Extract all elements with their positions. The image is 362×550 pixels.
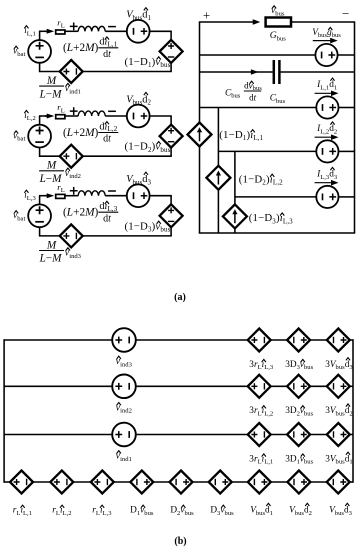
- current arrow i_L1: [45, 30, 52, 32]
- wire inductor to source stage 3: [105, 195, 126, 197]
- resistor r_L stage 1: [56, 30, 65, 34]
- wire top-left stage 3: [39, 196, 41, 205]
- wire b rail 1 segment 5: [350, 339, 353, 341]
- dependent source v_ind3 stage 3: [60, 224, 83, 247]
- wire b rail 1 segment 2: [135, 339, 247, 341]
- arrow I_L1 d_1: [315, 92, 337, 94]
- wire b rail 2 segment 2: [135, 385, 247, 387]
- polarity - inductor stage 2: [108, 110, 116, 112]
- polarity + inductor stage 3: [70, 187, 78, 195]
- wire bus right edge: [354, 22, 356, 233]
- svg-text:(L+2M): (L+2M): [63, 207, 99, 219]
- dependent source (1-D2)i_L2: [206, 166, 230, 190]
- resistor r_L stage 3: [56, 194, 65, 198]
- dependent source 3r_L i_L1: [248, 423, 271, 446]
- svg-text:M: M: [46, 160, 57, 172]
- wire right vertical bottom stage 3: [170, 227, 172, 236]
- wire branch g_bus left: [200, 54, 316, 56]
- wire b rail 1 segment 3: [271, 339, 287, 341]
- wire capacitor branch left: [200, 71, 273, 73]
- dependent source (1-D1)v_bus stage 1: [160, 40, 183, 63]
- dependent source 3D2v_bus: [287, 375, 310, 398]
- source v_ind1: [112, 423, 136, 447]
- wire source to corner stage 2: [149, 115, 171, 117]
- wire b bottom rail to V_bus d_1: [231, 481, 248, 483]
- wire bottom-left stage 1: [39, 71, 60, 73]
- dependent source V_bus d_3: [327, 471, 350, 494]
- wire inner vertical A upper: [217, 108, 219, 166]
- wire bus left edge lower: [199, 147, 201, 234]
- svg-text:M: M: [46, 75, 57, 87]
- wire right vertical top stage 1: [170, 31, 172, 40]
- wire b rail 1 segment 4: [310, 339, 327, 341]
- dependent source 3D3v_bus: [287, 329, 310, 352]
- wire b bottom rail to D2 v_bus: [153, 481, 170, 483]
- battery source v_bat stage 3: [28, 204, 51, 227]
- wire branch I_L1 left: [200, 107, 317, 109]
- wire bottom-left stage 2: [39, 155, 60, 157]
- dependent source 3V_bus d_1: [327, 423, 350, 446]
- wire resistor to inductor stage 3: [65, 195, 78, 197]
- source v_ind2: [112, 375, 136, 399]
- wire top-left stage 1: [39, 31, 41, 40]
- dependent source D2 v_bus: [170, 471, 193, 494]
- voltage source V_bus d_1 stage 1: [127, 20, 150, 43]
- wire inductor to source stage 1: [105, 30, 126, 32]
- wire b rail 2 segment 5: [350, 385, 353, 387]
- wire b bottom rail to D3 v_bus: [192, 481, 209, 483]
- dependent source V_bus d_2: [287, 471, 310, 494]
- svg-text:L−M: L−M: [39, 253, 63, 265]
- wire bus bottom rail: [199, 232, 355, 234]
- wire b rail 3 segment 1: [4, 434, 113, 436]
- dependent source r_L i_L2: [50, 471, 73, 494]
- svg-text:+: +: [203, 7, 210, 22]
- current arrow i_L3: [45, 195, 52, 197]
- wire right vertical top stage 2: [170, 116, 172, 125]
- source I_L3 d_3: [316, 186, 338, 208]
- wire b bottom rail to V_bus d_3: [310, 481, 328, 483]
- dependent source v_ind2 stage 2: [60, 145, 83, 168]
- source v_ind3: [112, 328, 136, 352]
- wire branch I_L1 right: [339, 107, 355, 109]
- voltage source V_bus d_2 stage 2: [127, 105, 150, 128]
- battery source v_bat stage 1: [28, 40, 51, 63]
- dependent source (1-D2)v_bus stage 2: [160, 125, 183, 148]
- polarity + inductor stage 1: [70, 23, 78, 31]
- dependent source 3V_bus d_3: [327, 329, 350, 352]
- dependent source V_bus d_1: [248, 471, 271, 494]
- wire b rail 3 segment 2: [135, 434, 247, 436]
- wire branch I_L2 left: [218, 150, 316, 152]
- wire b bottom rail to r_L i_L3: [73, 481, 92, 483]
- current arrow v_bus: [253, 19, 261, 25]
- wire b rail 3 segment 5: [350, 434, 353, 436]
- svg-text:(L+2M): (L+2M): [63, 127, 99, 139]
- wire capacitor branch right: [281, 71, 355, 73]
- wire b left edge: [3, 339, 5, 482]
- wire b bottom rail to D1 v_bus: [113, 481, 131, 483]
- wire b rail 2 segment 3: [271, 385, 287, 387]
- polarity - inductor stage 1: [108, 26, 116, 28]
- wire bus top rail left segment: [199, 21, 254, 23]
- voltage source V_bus d_3 stage 3: [127, 184, 150, 207]
- polarity - inductor stage 3: [108, 190, 116, 192]
- wire right vertical bottom stage 1: [170, 62, 172, 71]
- svg-text:(a): (a): [174, 292, 186, 303]
- wire b bottom rail last segment: [349, 481, 353, 483]
- dependent source (1-D1)i_L1: [188, 123, 212, 147]
- wire b rail 3 segment 3: [271, 434, 287, 436]
- wire source to corner stage 1: [149, 30, 171, 32]
- source V_bus g_bus: [315, 44, 337, 66]
- wire bottom right to v_ind diamond stage 3: [83, 235, 152, 237]
- dependent source 3D1v_bus: [287, 423, 310, 446]
- source I_L2 d_2: [316, 140, 338, 162]
- wire branch I_L3 right: [339, 196, 355, 198]
- wire b rail 3 segment 4: [310, 434, 327, 436]
- wire bottom right to v_ind diamond stage 1: [83, 71, 152, 73]
- dependent source (1-D3)i_L3: [223, 204, 247, 228]
- wire b right edge: [352, 339, 354, 482]
- wire b bottom rail to V_bus d_2: [270, 481, 288, 483]
- wire bottom-left stage 3: [39, 235, 60, 237]
- svg-text:M: M: [46, 239, 57, 251]
- wire inner vertical B lower: [234, 228, 236, 233]
- svg-text:(b): (b): [174, 536, 186, 547]
- dependent source 3V_bus d_2: [327, 375, 350, 398]
- polarity + inductor stage 2: [70, 107, 78, 115]
- inductor (L+2M) stage 2: [78, 111, 105, 116]
- inductor (L+2M) stage 1: [78, 26, 105, 31]
- wire b bottom rail to r_L i_L2: [32, 481, 51, 483]
- svg-text:dt: dt: [249, 92, 257, 102]
- dependent source r_L i_L3: [91, 471, 114, 494]
- wire right vertical top stage 3: [170, 196, 172, 205]
- arrow V_bus g_bus: [313, 40, 336, 42]
- wire bus left edge upper: [199, 22, 201, 123]
- wire branch I_L3 left: [235, 196, 316, 198]
- dependent source r_L i_L1: [10, 471, 33, 494]
- wire right vertical bottom stage 2: [170, 147, 172, 156]
- svg-text:L−M: L−M: [39, 88, 63, 100]
- wire b rail 2 segment 1: [4, 385, 113, 387]
- inductor (L+2M) stage 3: [78, 191, 105, 196]
- wire branch I_L2 right: [339, 150, 355, 152]
- wire bottom right to v_ind diamond stage 2: [83, 155, 152, 157]
- wire b rail 1 segment 1: [4, 339, 113, 341]
- wire inductor to source stage 2: [105, 115, 126, 117]
- dependent source D3 v_bus: [209, 471, 232, 494]
- wire inner vertical A lower: [217, 190, 219, 233]
- svg-text:dt: dt: [103, 49, 111, 60]
- svg-text:−: −: [342, 6, 349, 21]
- dependent source 3r_L i_L2: [248, 375, 271, 398]
- wire bus top rail right segment: [290, 21, 355, 23]
- wire top-left stage 2: [39, 116, 41, 125]
- wire inner vertical B upper: [234, 151, 236, 205]
- arrow I_L2 d_2: [315, 136, 337, 138]
- dependent source v_ind1 stage 1: [60, 60, 83, 83]
- dependent source D1 v_bus: [130, 471, 153, 494]
- svg-text:dt: dt: [103, 213, 111, 224]
- dependent source (1-D3)v_bus stage 3: [160, 204, 183, 227]
- resistor G_bus: [266, 18, 291, 27]
- svg-text:(L+2M): (L+2M): [63, 42, 99, 54]
- wire resistor to inductor stage 1: [65, 30, 78, 32]
- wire branch g_bus right: [338, 54, 355, 56]
- wire resistor to inductor stage 2: [65, 115, 78, 117]
- dependent source 3r_L i_L3: [248, 329, 271, 352]
- resistor r_L stage 2: [56, 115, 65, 119]
- arrow I_L3 d_3: [315, 182, 337, 184]
- wire b rail 2 segment 4: [310, 385, 327, 387]
- svg-text:dt: dt: [103, 134, 111, 145]
- battery source v_bat stage 2: [28, 125, 51, 148]
- current arrow i_L2: [45, 115, 52, 117]
- capacitor C_bus: [273, 60, 276, 84]
- current arrow C_bus dv_bus/dt: [251, 69, 259, 75]
- wire b bottom rail to r_L i_L1: [4, 481, 11, 483]
- wire source to corner stage 3: [149, 195, 171, 197]
- source I_L1 d_1: [316, 96, 338, 118]
